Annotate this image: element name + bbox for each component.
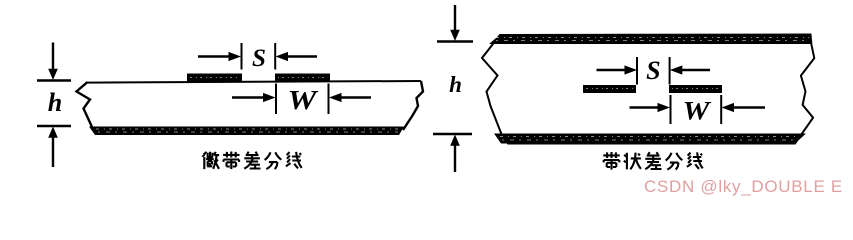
svg-text:W: W: [288, 85, 319, 115]
right diagram: h dimension lower tick: [433, 133, 472, 135]
left diagram: h dimension down-arrowhead: [48, 69, 58, 80]
caption left char 5: 线: [286, 152, 302, 168]
right diagram: S right arrowhead: [670, 65, 683, 74]
right diagram: S left arrow shaft: [597, 69, 625, 71]
left diagram: microstrip substrate top surface line: [87, 81, 421, 83]
left diagram: S left arrowhead: [229, 52, 242, 61]
left diagram: S right arrow shaft: [288, 55, 317, 57]
texture speckles on right bottom band: [500, 136, 798, 138]
right diagram: dielectric slab outline: [482, 35, 814, 144]
caption left char 2: 带: [223, 152, 239, 170]
caption right char 3: 差: [645, 152, 661, 169]
left diagram: h dimension lower tick: [37, 125, 71, 127]
right diagram: S left arrowhead: [625, 65, 638, 74]
right diagram: h dimension down-arrowhead: [450, 30, 460, 41]
caption left char 4: 分: [265, 152, 282, 169]
right diagram: right conductor strip: [669, 85, 722, 93]
left diagram: W right arrow shaft: [342, 96, 372, 98]
right diagram: h dimension up-arrow shaft: [454, 145, 456, 172]
left diagram: W left arrowhead: [263, 93, 276, 102]
right diagram: W right arrow shaft: [734, 106, 765, 108]
right diagram: h dimension up-arrowhead: [450, 135, 460, 146]
caption right char 5: 线: [687, 152, 703, 168]
left diagram: h dimension upper tick: [37, 79, 71, 81]
right diagram: bottom ground plane band: [494, 134, 806, 144]
right diagram: S extension line left: [636, 57, 638, 85]
caption left char 3: 差: [244, 152, 260, 169]
left diagram: h dimension down-arrow shaft: [52, 43, 54, 71]
left diagram: W extension line right: [328, 84, 330, 115]
texture speckles on right top band: [496, 37, 809, 39]
left diagram: right conductor strip: [275, 74, 330, 82]
texture speckles on left ground band: [96, 128, 400, 130]
right diagram: W right arrowhead: [722, 103, 735, 112]
right diagram: top ground plane band: [489, 34, 811, 44]
right diagram: W extension line left: [670, 95, 672, 124]
left diagram: S right arrowhead: [276, 52, 289, 61]
left diagram: S left arrow shaft: [198, 55, 229, 57]
right diagram: W extension line right: [720, 95, 722, 124]
caption right char 2: 状: [624, 153, 641, 170]
right diagram: W left arrowhead: [658, 103, 671, 112]
right diagram: left conductor strip: [583, 85, 636, 93]
right diagram: W left arrow shaft: [630, 106, 659, 108]
left diagram: substrate right break (jagged edge): [403, 81, 423, 130]
svg-text:S: S: [252, 45, 266, 72]
left diagram: W left arrow shaft: [232, 96, 263, 98]
left diagram: substrate left break (zigzag edge): [77, 82, 93, 127]
right diagram: h dimension upper tick: [437, 40, 473, 42]
caption left char 1: 微: [203, 152, 220, 169]
right diagram: h dimension down-arrow shaft: [454, 5, 456, 31]
left diagram: W extension line left: [275, 84, 277, 115]
left diagram: S extension line left: [241, 43, 243, 70]
caption right char 4: 分: [666, 153, 683, 170]
left diagram: h dimension up-arrowhead: [48, 127, 58, 138]
left diagram: left conductor strip: [187, 74, 242, 82]
svg-text:S: S: [646, 56, 660, 85]
left diagram: W right arrowhead: [329, 93, 342, 102]
right diagram: S right arrow shaft: [682, 69, 710, 71]
caption right char 1: 带: [603, 152, 619, 170]
svg-text:h: h: [48, 88, 62, 117]
svg-text:W: W: [683, 97, 712, 126]
svg-text:CSDN @lky_DOUBLE E: CSDN @lky_DOUBLE E: [644, 177, 843, 196]
right diagram: S extension line right: [669, 57, 671, 85]
texture speckles on strips: [190, 77, 239, 79]
left diagram: S extension line right: [274, 43, 276, 70]
left diagram: ground plane band: [89, 127, 404, 136]
svg-text:h: h: [449, 72, 462, 97]
left diagram: h dimension up-arrow shaft: [52, 137, 54, 167]
